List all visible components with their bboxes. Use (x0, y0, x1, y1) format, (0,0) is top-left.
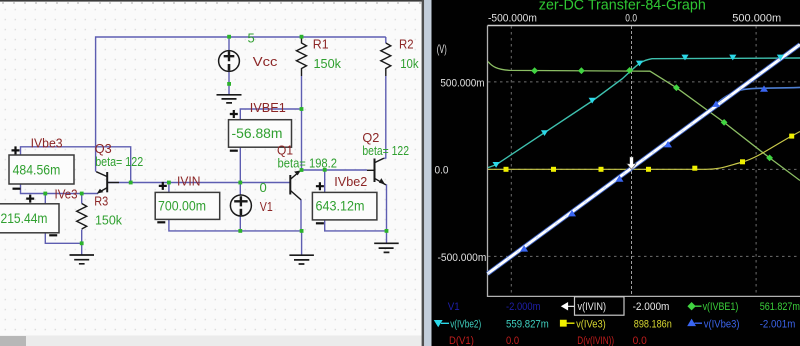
svg-text:IVbe2: IVbe2 (334, 174, 367, 189)
legend row1 IVBE1 icon (688, 303, 701, 309)
svg-text:5: 5 (248, 31, 255, 46)
plot frame (488, 25, 800, 27)
node emitter rail IVe3 tap (43, 192, 47, 196)
trace v(IVIN) white line (488, 45, 800, 274)
Vcc source (219, 51, 240, 72)
svg-text:0: 0 (260, 180, 267, 195)
wire IVBE1 minus down to base bus (239, 147, 241, 182)
voltmeter IVIN (155, 192, 220, 219)
svg-text:559.827m: 559.827m (506, 319, 549, 331)
plus IVe3 (26, 195, 34, 203)
svg-text:D(v(IVIN)): D(v(IVIN)) (577, 335, 614, 346)
svg-text:v(IVe3): v(IVe3) (576, 319, 606, 331)
resistor R3 (77, 204, 87, 230)
ground (bottom rail) (289, 255, 314, 264)
voltmeter IVe3 (0, 204, 59, 233)
wire Q2 emitter vertical (386, 184, 388, 231)
gridline x=500m (755, 26, 757, 296)
legend row2 IVbe3 icon (688, 320, 702, 325)
cursor crosshair arrow (627, 157, 636, 169)
graph panel background (432, 0, 800, 346)
svg-text:215.44m: 215.44m (1, 211, 48, 226)
node R1 top (300, 35, 304, 39)
svg-text:v(IVBE1): v(IVBE1) (703, 301, 739, 313)
svg-text:500.000m: 500.000m (440, 78, 484, 90)
svg-text:10k: 10k (400, 56, 419, 71)
wire Vcc to ground (228, 71, 230, 94)
node V1 bottom (238, 229, 242, 233)
node emitter rail R3 top (80, 192, 84, 196)
wire Q1 lower lead to bottom rail (300, 200, 302, 231)
svg-text:Q2: Q2 (362, 130, 379, 145)
node V1 top (238, 181, 242, 185)
svg-text:150k: 150k (95, 212, 122, 227)
svg-text:-500.000m: -500.000m (488, 13, 537, 25)
wire bottom rail to ground (301, 231, 303, 255)
cursor line x=0 (631, 26, 633, 296)
svg-text:Q3: Q3 (95, 141, 112, 156)
svg-text:484.56m: 484.56m (13, 163, 61, 178)
trace texture light blue dashes (488, 45, 800, 274)
svg-text:-2.000m: -2.000m (633, 301, 670, 313)
schematic background (0, 0, 424, 346)
svg-text:IVBE1: IVBE1 (250, 100, 286, 115)
gridline y=0 (488, 168, 800, 170)
ground (Vcc) (217, 95, 242, 103)
trace v(IVbe2) cyan (488, 58, 800, 168)
wire V1 top stub (239, 183, 241, 195)
wire R3 top stub (81, 194, 83, 204)
svg-text:v(IVbe3): v(IVbe3) (704, 319, 740, 331)
wire V1 bottom stub (239, 216, 241, 231)
Q2 emitter arrow (379, 178, 385, 185)
svg-text:IVe3: IVe3 (55, 186, 78, 201)
node R3 bottom (80, 241, 84, 245)
transistor Q3 (96, 172, 119, 193)
svg-text:beta= 122: beta= 122 (95, 155, 143, 169)
svg-text:150k: 150k (314, 56, 342, 71)
svg-text:V1: V1 (448, 301, 460, 313)
svg-text:700.00m: 700.00m (158, 198, 206, 213)
minus IVe3 (49, 234, 57, 236)
ground (Q2) (374, 243, 399, 252)
minus IVbe3 (13, 188, 21, 190)
svg-text:500.000m: 500.000m (732, 13, 781, 25)
wire top rail (96, 37, 386, 172)
wire IVbe3 plus tap (21, 147, 131, 183)
resistor R1 (297, 37, 307, 76)
trace v1 blue line (488, 45, 800, 274)
svg-text:561.827m: 561.827m (760, 301, 800, 313)
node IVbe2 tap (323, 168, 327, 172)
node IVBE1 wire to R1 (300, 107, 304, 111)
plus IVIN (159, 182, 167, 190)
svg-text:v(IVIN): v(IVIN) (578, 301, 607, 313)
markers v(IVbe3) triangles up (520, 85, 768, 251)
svg-text:-2.000m: -2.000m (506, 301, 540, 313)
plus IVbe2 (316, 182, 324, 190)
svg-text:Q1: Q1 (277, 143, 293, 158)
svg-text:D(V1): D(V1) (449, 335, 474, 346)
resistor R2 (381, 43, 391, 76)
plus IVBE1 (230, 110, 238, 118)
gridline y=-500m (488, 255, 800, 257)
transistor Q1 (290, 172, 301, 200)
svg-text:IVbe3: IVbe3 (31, 135, 63, 150)
svg-text:0.0: 0.0 (435, 165, 449, 177)
legend row2 IVbe2 icon (435, 321, 449, 326)
wire IVBE1 plus to R1 node (240, 109, 301, 120)
trace v(IVBE1) green (488, 62, 800, 181)
trace v(IVbe3) blue curve (488, 87, 800, 273)
node base bus left (129, 181, 133, 185)
svg-text:beta= 198.2: beta= 198.2 (278, 157, 338, 171)
node Vcc top (227, 35, 231, 39)
svg-text:898.186n: 898.186n (634, 319, 672, 331)
wire base bus Q3 to Q1 (108, 182, 290, 184)
plus IVbe3 (12, 146, 20, 154)
legend row1 cursor icon (562, 303, 575, 309)
wire IVbe2 plus tap (324, 170, 326, 193)
voltmeter IVbe3 (9, 155, 74, 184)
svg-text:0.0: 0.0 (633, 335, 647, 346)
node bottom rail right (300, 229, 304, 233)
svg-text:v(IVbe2): v(IVbe2) (450, 319, 481, 331)
wire R2 bottom to Q2 collector (384, 37, 386, 158)
svg-text:R2: R2 (399, 37, 414, 52)
gridline x=-500m (510, 26, 512, 296)
bottom horizontal scrollbar (0, 336, 422, 346)
markers v(IVe3) squares (504, 134, 795, 172)
Q1 emitter arrow (294, 170, 301, 175)
svg-text:(V): (V) (437, 42, 447, 56)
trace v(IVe3) yellow (488, 132, 800, 170)
window divider (422, 0, 425, 346)
svg-text:643.12m: 643.12m (316, 199, 365, 214)
source V1 (230, 195, 251, 216)
node collector junction (300, 168, 304, 172)
voltmeter IVBE1 (229, 120, 292, 148)
node Vcc bottom (227, 82, 231, 86)
svg-text:R3: R3 (94, 193, 108, 208)
gridline y=500m (488, 81, 800, 83)
wire IVIN minus to bottom rail (169, 219, 302, 231)
minus IVIN (157, 221, 165, 223)
wire IVIN plus stub (168, 183, 170, 193)
svg-text:Vcc: Vcc (253, 54, 278, 69)
svg-text:-500.000m: -500.000m (438, 252, 487, 264)
markers v(IVbe2) triangles down (493, 55, 785, 168)
svg-text:-56.88m: -56.88m (232, 126, 283, 141)
legend row1 selected box (575, 297, 625, 315)
svg-text:-2.001m: -2.001m (760, 319, 796, 331)
top toolbar edge (0, 0, 422, 2)
svg-text:0.0: 0.0 (625, 13, 637, 25)
svg-text:V1: V1 (260, 199, 273, 214)
Q3 emitter arrow (97, 189, 104, 194)
svg-text:beta= 122: beta= 122 (362, 144, 409, 158)
transistor Q2 (367, 158, 386, 185)
node Q2 emitter (385, 229, 389, 233)
svg-text:IVIN: IVIN (177, 173, 200, 188)
minus IVBE1 (230, 150, 238, 152)
svg-text:zer-DC Transfer-84-Graph: zer-DC Transfer-84-Graph (539, 0, 706, 14)
wire Q2 ground stub (386, 231, 388, 243)
wire IVe3 minus to R3 bottom (45, 233, 81, 243)
svg-text:0.0: 0.0 (506, 335, 519, 346)
wire IVe3 plus stub (44, 194, 46, 204)
svg-text:R1: R1 (313, 37, 329, 52)
minus IVbe2 (316, 222, 324, 224)
wire IVbe3 minus to emitter rail (21, 184, 99, 194)
wire IVbe2 minus to Q2 emitter node (325, 220, 387, 231)
legend row2 IVe3 icon (561, 321, 575, 326)
ground (R3) (70, 255, 95, 264)
node IVIN plus (167, 181, 171, 185)
wire Vcc top stub (228, 37, 230, 51)
wire R3 bottom stub (81, 230, 83, 255)
voltmeter IVbe2 (312, 192, 377, 220)
markers v(IVBE1) diamonds (531, 67, 773, 161)
wire collector node to Q2 base (302, 169, 368, 171)
wire R1 bottom to node (301, 76, 303, 170)
